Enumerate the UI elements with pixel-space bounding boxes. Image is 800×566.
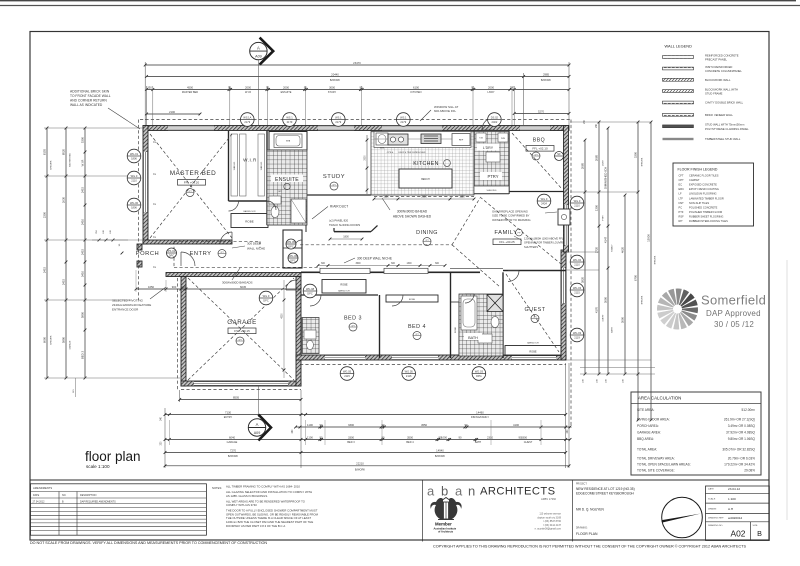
window guest bottom bbox=[512, 355, 556, 359]
svg-text:WG.02: WG.02 bbox=[573, 258, 582, 262]
svg-text:CPT: CPT bbox=[188, 191, 191, 193]
svg-text:WG.00: WG.00 bbox=[130, 201, 139, 205]
dashed roof overhang left bbox=[138, 120, 140, 301]
svg-text:2415: 2415 bbox=[81, 248, 85, 255]
svg-text:scale 1:100: scale 1:100 bbox=[86, 464, 110, 469]
svg-text:3820: 3820 bbox=[581, 276, 585, 283]
notes block bbox=[212, 485, 319, 528]
svg-text:300 DEEP WALL NICHE: 300 DEEP WALL NICHE bbox=[357, 256, 392, 260]
study 1800 dim bbox=[329, 236, 364, 241]
svg-text:5300: 5300 bbox=[81, 136, 85, 143]
svg-text:14940: 14940 bbox=[436, 448, 444, 452]
svg-text:WG.03: WG.03 bbox=[573, 286, 582, 290]
svg-text:BED 4: BED 4 bbox=[406, 441, 414, 444]
svg-text:PTRY: PTRY bbox=[487, 174, 498, 179]
svg-text:OPENING FOR TIMBER LOUVRE: OPENING FOR TIMBER LOUVRE bbox=[524, 241, 564, 245]
svg-text:TOTAL AREA:: TOTAL AREA: bbox=[637, 448, 657, 452]
svg-text:3300: 3300 bbox=[521, 435, 528, 439]
svg-text:LF: LF bbox=[679, 192, 682, 196]
svg-text:ENSUITE: ENSUITE bbox=[281, 91, 292, 94]
svg-text:AREA CALCULATION: AREA CALCULATION bbox=[638, 396, 681, 401]
wall garage right bbox=[296, 277, 301, 387]
wall ensuite bottom bbox=[267, 224, 307, 226]
svg-text:LIVING FLOOR AREA:: LIVING FLOOR AREA: bbox=[637, 418, 670, 422]
dashed roof overhang top bbox=[140, 119, 571, 121]
svg-text:NST: NST bbox=[679, 201, 685, 205]
bed4-bath wall + vertical robe bbox=[451, 272, 460, 358]
svg-text:e. aconite00@gmail.com: e. aconite00@gmail.com bbox=[535, 528, 561, 531]
svg-text:3900: 3900 bbox=[365, 155, 367, 161]
svg-text:SELECTED PIVOTING: SELECTED PIVOTING bbox=[112, 299, 144, 303]
svg-text:2000: 2000 bbox=[488, 85, 495, 89]
svg-text:B/WORK: B/WORK bbox=[51, 160, 53, 169]
svg-text:179.22m² OR 34.42%: 179.22m² OR 34.42% bbox=[724, 463, 755, 467]
svg-text:4147: 4147 bbox=[604, 236, 608, 243]
dashed entry niche box bbox=[174, 241, 320, 267]
svg-text:WG.08: WG.08 bbox=[306, 287, 315, 291]
left dim line inner bbox=[81, 127, 87, 380]
dimension row 4550 bbox=[294, 423, 571, 429]
svg-text:WALL LEGEND: WALL LEGEND bbox=[665, 44, 693, 49]
robe box below wir bbox=[231, 210, 268, 228]
svg-text:2115: 2115 bbox=[574, 290, 580, 294]
svg-text:DAP REQUIRED AMENDMENTS: DAP REQUIRED AMENDMENTS bbox=[80, 500, 116, 503]
svg-text:3300: 3300 bbox=[348, 435, 355, 439]
note 300 deep wall niche entry bbox=[232, 242, 265, 251]
svg-text:TOTAL DRIVEWAY AREA:: TOTAL DRIVEWAY AREA: bbox=[637, 457, 675, 461]
family sliding door marks right wall bbox=[563, 252, 569, 268]
svg-text:GUEST: GUEST bbox=[603, 314, 605, 322]
aban architects wordmark bbox=[427, 484, 557, 501]
svg-text:OWNER PRIOR TO FRAMING: OWNER PRIOR TO FRAMING bbox=[492, 218, 531, 222]
svg-text:B/WORK: B/WORK bbox=[228, 455, 238, 458]
svg-text:2000: 2000 bbox=[283, 85, 290, 89]
svg-text:SHELVES: SHELVES bbox=[487, 190, 497, 192]
svg-text:WG.03: WG.03 bbox=[573, 331, 582, 335]
wall master-wir divider bbox=[228, 131, 230, 201]
door wir arc bbox=[229, 201, 239, 211]
svg-text:STUD FRAME: STUD FRAME bbox=[705, 92, 723, 96]
ldry-ptry tiled floor bbox=[474, 132, 509, 194]
svg-text:4500: 4500 bbox=[187, 85, 194, 89]
note bulkhead kitchen bbox=[382, 198, 432, 219]
svg-text:NEW RESIDENCE AT LOT 1219 (NO.: NEW RESIDENCE AT LOT 1219 (NO.35) bbox=[576, 487, 635, 491]
dimension row porch 1650 bbox=[135, 285, 302, 291]
svg-text:ENSUITE: ENSUITE bbox=[275, 177, 299, 183]
dashed master bed diagonal 2 bbox=[150, 134, 232, 238]
svg-text:6700: 6700 bbox=[634, 274, 638, 281]
svg-text:ARCHITECTS: ARCHITECTS bbox=[480, 486, 555, 498]
svg-text:FLOOR PLAN: FLOOR PLAN bbox=[576, 532, 598, 536]
svg-text:WALL AS INDICATED: WALL AS INDICATED bbox=[70, 103, 103, 107]
room label BBQ bbox=[526, 138, 554, 161]
svg-text:STUD WALL WITH 75mm(50mm: STUD WALL WITH 75mm(50mm bbox=[705, 123, 745, 127]
svg-text:FLOOR FINISH LEGEND: FLOOR FINISH LEGEND bbox=[678, 168, 718, 172]
svg-text:B/WORK: B/WORK bbox=[655, 255, 657, 264]
svg-text:FFL +00.20: FFL +00.20 bbox=[184, 181, 200, 185]
note 300 deep wall niche hall bbox=[344, 256, 392, 263]
note selected pivoting door bbox=[112, 287, 166, 312]
kitchen benchtop top band bbox=[374, 132, 471, 148]
svg-text:2179: 2179 bbox=[335, 120, 341, 124]
ptry shelves strip bbox=[474, 186, 509, 194]
window tag DS.02 top5 bbox=[488, 113, 502, 127]
svg-text:DINING: DINING bbox=[416, 230, 438, 236]
amendments table bbox=[31, 484, 207, 535]
svg-text:MASTER BED: MASTER BED bbox=[182, 91, 198, 94]
svg-text:B/WORK: B/WORK bbox=[642, 295, 644, 304]
bd0 connectors bbox=[136, 270, 166, 292]
dashed overhang left of garage bbox=[177, 278, 179, 390]
svg-text:PROJECT:: PROJECT: bbox=[576, 483, 587, 485]
svg-text:GARAGE: GARAGE bbox=[227, 441, 238, 444]
guest robe strip bbox=[505, 342, 561, 356]
right dim connectors bbox=[566, 122, 651, 360]
svg-text:3000: 3000 bbox=[621, 316, 625, 323]
svg-text:2402: 2402 bbox=[492, 120, 498, 124]
svg-text:20440: 20440 bbox=[331, 72, 339, 76]
divider notes-aban bbox=[422, 480, 424, 542]
dashed ridge line hall bbox=[300, 244, 452, 246]
svg-text:4170: 4170 bbox=[595, 306, 599, 313]
svg-text:DESCRIPTION: DESCRIPTION bbox=[80, 494, 97, 497]
ensuite spa bbox=[269, 132, 307, 151]
dimension row bed widths bbox=[164, 435, 572, 444]
svg-text:B/WORK: B/WORK bbox=[435, 455, 445, 458]
kitchen oven appliance bbox=[421, 134, 441, 144]
svg-text:20.79m² OR 6.03%: 20.79m² OR 6.03% bbox=[728, 457, 755, 461]
svg-text:305.07m² OR 32.82SQ: 305.07m² OR 32.82SQ bbox=[722, 448, 755, 452]
svg-text:23.04.12: 23.04.12 bbox=[728, 487, 740, 491]
dashed overhang below garage bbox=[181, 389, 301, 391]
ldry label bbox=[477, 144, 499, 151]
wall legend item 6 bbox=[663, 113, 734, 117]
right dim line 4 bbox=[621, 194, 627, 376]
dimension row 23470 bbox=[144, 61, 571, 67]
svg-text:2110: 2110 bbox=[574, 203, 580, 207]
dimension row entry 7130 / 14460 bbox=[164, 410, 567, 419]
svg-text:90: 90 bbox=[458, 435, 462, 439]
svg-text:A.H: A.H bbox=[728, 507, 733, 511]
window tag left WG.02 bbox=[127, 171, 141, 185]
svg-text:W/M: W/M bbox=[501, 138, 505, 140]
svg-text:KITCHEN: KITCHEN bbox=[411, 91, 422, 94]
svg-text:DPC: DPC bbox=[263, 298, 269, 302]
window tag bbq WG bbox=[537, 194, 551, 208]
dimension row 22210 bbox=[164, 462, 571, 468]
svg-text:CP'B &: CP'B & bbox=[387, 152, 394, 154]
wall entry-garage top bbox=[166, 273, 301, 277]
svg-text:29.08%: 29.08% bbox=[744, 469, 755, 473]
svg-text:TOTAL SITE COVERAGE:: TOTAL SITE COVERAGE: bbox=[637, 469, 675, 473]
divider aban-project bbox=[572, 480, 574, 542]
kitchen label bbox=[413, 160, 450, 167]
svg-text:3300: 3300 bbox=[634, 151, 638, 158]
door guest arc bbox=[508, 271, 519, 282]
dashed overhang below wing bbox=[300, 364, 566, 366]
window study top bbox=[318, 126, 354, 130]
svg-text:clayton south vic 3169: clayton south vic 3169 bbox=[537, 516, 561, 519]
room label BED 3 bbox=[344, 316, 362, 332]
wall family-bbq right bbox=[564, 126, 569, 253]
right dim line 5 bbox=[634, 121, 640, 422]
left 115 label bbox=[73, 378, 76, 397]
svg-text:2179: 2179 bbox=[244, 120, 250, 124]
window tag left WG.03 bbox=[127, 198, 141, 212]
svg-text:BENCH: BENCH bbox=[421, 178, 430, 181]
dimension row garage 8500 bbox=[178, 395, 302, 401]
section marker A09 top bbox=[250, 38, 274, 125]
svg-text:GUEST: GUEST bbox=[524, 307, 545, 313]
svg-text:AND CORNER RETURN: AND CORNER RETURN bbox=[70, 99, 107, 103]
svg-text:2600: 2600 bbox=[421, 196, 427, 199]
svg-text:2340Hx1200Wx40 FEATURE: 2340Hx1200Wx40 FEATURE bbox=[112, 303, 151, 307]
kitchen tiled floor bbox=[371, 132, 474, 196]
svg-text:DATE: DATE bbox=[33, 494, 40, 497]
svg-text:EDGECOMB STREET KEYSBOROUGH: EDGECOMB STREET KEYSBOROUGH bbox=[576, 492, 635, 496]
svg-text:RUBBER SHEET FLOORING: RUBBER SHEET FLOORING bbox=[689, 214, 723, 218]
svg-text:2985: 2985 bbox=[543, 72, 550, 76]
window tag right WG.06 bbox=[570, 283, 584, 297]
svg-text:DPG: DPG bbox=[476, 374, 482, 378]
svg-text:POLISHED TIMBER FLOOR: POLISHED TIMBER FLOOR bbox=[689, 210, 722, 214]
svg-text:wd020012: wd020012 bbox=[728, 516, 743, 520]
svg-text:L'DRY: L'DRY bbox=[487, 91, 494, 94]
svg-text:ROBE: ROBE bbox=[340, 283, 348, 287]
svg-text:SINK: SINK bbox=[380, 148, 385, 150]
door bed3 arc bbox=[310, 295, 321, 306]
kitchen sink bbox=[376, 133, 388, 150]
svg-text:2085: 2085 bbox=[581, 162, 585, 169]
wall garage bottom bbox=[181, 381, 301, 386]
svg-text:LTF: LTF bbox=[679, 196, 684, 200]
svg-text:ENTRY: ENTRY bbox=[224, 416, 233, 419]
svg-text:TO FRONT FACADE WALL: TO FRONT FACADE WALL bbox=[70, 94, 111, 98]
svg-text:(x2) PANEL 820: (x2) PANEL 820 bbox=[329, 219, 349, 223]
svg-text:512.00m²: 512.00m² bbox=[742, 408, 755, 412]
svg-text:1100: 1100 bbox=[307, 423, 313, 427]
svg-text:2424: 2424 bbox=[541, 201, 547, 205]
svg-text:1650: 1650 bbox=[148, 285, 155, 289]
svg-text:2415: 2415 bbox=[43, 266, 47, 273]
svg-text:1806: 1806 bbox=[131, 156, 137, 160]
svg-text:TIMBER/STEEL STUD WALL: TIMBER/STEEL STUD WALL bbox=[705, 137, 741, 141]
svg-text:CPT: CPT bbox=[238, 339, 241, 341]
svg-text:300Wx900D B/HEADS: 300Wx900D B/HEADS bbox=[222, 281, 253, 285]
window bed4 bottom bbox=[392, 355, 438, 359]
svg-text:WG.05: WG.05 bbox=[343, 369, 352, 373]
ensuite tag circle bbox=[284, 183, 290, 189]
svg-text:Somerfield: Somerfield bbox=[701, 293, 766, 308]
bottom dim tick verticals bbox=[169, 420, 541, 445]
svg-text:MR D. Q. NGUYEN: MR D. Q. NGUYEN bbox=[576, 508, 605, 512]
svg-text:1800: 1800 bbox=[343, 236, 349, 239]
svg-text:BBQ: BBQ bbox=[533, 138, 545, 144]
svg-text:CPT: CPT bbox=[220, 252, 223, 254]
svg-text:2116: 2116 bbox=[406, 374, 412, 378]
svg-text:A: A bbox=[256, 422, 259, 427]
wall guest right bbox=[561, 250, 566, 360]
svg-text:3500: 3500 bbox=[407, 435, 414, 439]
svg-text:RUBBER INTERLOCKING TILES: RUBBER INTERLOCKING TILES bbox=[689, 219, 728, 223]
svg-text:MASTER BED: MASTER BED bbox=[69, 153, 72, 167]
svg-text:INSITU REINFORCED: INSITU REINFORCED bbox=[705, 65, 732, 69]
svg-text:90: 90 bbox=[319, 435, 323, 439]
svg-text:4620: 4620 bbox=[621, 246, 625, 253]
room label BED 4 bbox=[408, 324, 426, 340]
svg-text:TOTAL OPEN SPACE/LAWN AREAS:: TOTAL OPEN SPACE/LAWN AREAS: bbox=[637, 463, 691, 467]
svg-text:b: b bbox=[441, 484, 448, 499]
note window sill kitchen bbox=[420, 105, 459, 121]
svg-text:L'DRY: L'DRY bbox=[483, 146, 494, 150]
svg-text:ENTRY: ENTRY bbox=[189, 251, 211, 257]
svg-text:7130: 7130 bbox=[225, 410, 232, 414]
svg-text:DINING/FAMILY: DINING/FAMILY bbox=[471, 416, 489, 419]
window master bed left bbox=[143, 152, 147, 212]
door entry arc bbox=[181, 252, 195, 266]
right dim line 3 bbox=[604, 127, 610, 376]
wir shelves strips bbox=[231, 134, 265, 196]
svg-text:DO NOT SCALE FROM DRAWINGS. VE: DO NOT SCALE FROM DRAWINGS. VERIFY ALL D… bbox=[30, 541, 267, 545]
svg-text:B/WORK: B/WORK bbox=[642, 157, 644, 166]
svg-text:BRICK VENEER WALL: BRICK VENEER WALL bbox=[705, 113, 733, 117]
svg-text:of Architects: of Architects bbox=[438, 531, 454, 534]
svg-text:30 / 05 /12: 30 / 05 /12 bbox=[714, 320, 754, 329]
svg-text:COPYRIGHT APPLIES TO THIS DRAW: COPYRIGHT APPLIES TO THIS DRAWING REPROD… bbox=[433, 545, 746, 549]
svg-text:SCALE:: SCALE: bbox=[708, 498, 716, 501]
svg-text:KITCHEN: KITCHEN bbox=[413, 161, 439, 167]
svg-text:PTRY: PTRY bbox=[603, 215, 605, 221]
svg-text:DRAWING REF:: DRAWING REF: bbox=[708, 517, 724, 520]
left dim line outer bbox=[43, 127, 49, 380]
svg-text:Member: Member bbox=[435, 522, 452, 527]
hall niche dim row bbox=[317, 263, 447, 267]
door wc arc bbox=[294, 240, 302, 248]
wall legend item 4 bbox=[663, 87, 739, 95]
guest top wall bbox=[503, 270, 566, 272]
svg-text:9.80m² OR 1.06SQ: 9.80m² OR 1.06SQ bbox=[728, 437, 756, 441]
svg-text:DROP & TWR CUPB'D/OVER: DROP & TWR CUPB'D/OVER bbox=[399, 152, 426, 154]
CL marks left wall bbox=[153, 141, 157, 269]
svg-text:ALL TIMBER FRAMING TO COMPLY W: ALL TIMBER FRAMING TO COMPLY WITH AS 168… bbox=[226, 485, 300, 489]
svg-text:POLYSTYRENE CLADDING PANEL: POLYSTYRENE CLADDING PANEL bbox=[705, 127, 749, 131]
ensuite tiled floor bbox=[267, 150, 307, 225]
svg-text:DS.02: DS.02 bbox=[491, 115, 499, 119]
room label MASTER BED bbox=[170, 170, 217, 197]
svg-text:WS.1: WS.1 bbox=[400, 115, 407, 119]
door tag entry bbox=[167, 248, 177, 258]
svg-text:WS.1A: WS.1A bbox=[243, 115, 251, 119]
svg-text:NF: NF bbox=[557, 152, 561, 156]
svg-text:DIMINISHED ICH: DIMINISHED ICH bbox=[604, 167, 608, 189]
window tag bottom guest bbox=[472, 367, 486, 381]
door garage internal arc bbox=[286, 280, 296, 290]
somerfield pinwheel logo bbox=[657, 288, 698, 329]
room label STUDY bbox=[323, 174, 345, 190]
svg-text:4550: 4550 bbox=[421, 423, 428, 427]
svg-text:floor plan: floor plan bbox=[85, 449, 141, 464]
svg-text:27.04.2012: 27.04.2012 bbox=[33, 500, 46, 503]
svg-text:1:100: 1:100 bbox=[728, 497, 736, 501]
door bath arc bbox=[465, 294, 474, 303]
svg-text:3000: 3000 bbox=[604, 296, 608, 303]
svg-text:WG.0: WG.0 bbox=[574, 199, 581, 203]
svg-text:ENTRANCE DOOR: ENTRANCE DOOR bbox=[112, 308, 139, 312]
svg-text:ROBE: ROBE bbox=[245, 220, 254, 224]
svg-text:BBQ AREA:: BBQ AREA: bbox=[637, 437, 654, 441]
svg-text:DPC: DPC bbox=[290, 258, 296, 262]
svg-text:SPA: SPA bbox=[286, 140, 291, 143]
svg-text:STUDY: STUDY bbox=[328, 91, 337, 94]
svg-text:1100: 1100 bbox=[459, 196, 465, 199]
svg-text:90: 90 bbox=[464, 423, 468, 427]
svg-text:8155: 8155 bbox=[43, 148, 47, 155]
svg-text:8520: 8520 bbox=[62, 148, 66, 155]
study south wall with pocket bbox=[334, 226, 378, 232]
ensuite-hall wall stub bbox=[305, 225, 307, 232]
svg-text:600 ABOVE FFL: 600 ABOVE FFL bbox=[434, 109, 457, 113]
wall legend item 8 bbox=[663, 137, 741, 141]
window tag left WG.01 bbox=[127, 149, 141, 163]
svg-text:BATH: BATH bbox=[611, 327, 614, 333]
window garage door bbox=[194, 381, 288, 385]
svg-text:PRECAST PANEL: PRECAST PANEL bbox=[705, 58, 728, 62]
svg-text:B/WORK: B/WORK bbox=[355, 468, 365, 471]
note louvre shutters bbox=[514, 236, 564, 249]
wall ensuite-study divider bbox=[305, 131, 307, 225]
room label FAMILY bbox=[493, 230, 521, 245]
svg-text:NO.: NO. bbox=[62, 494, 67, 497]
svg-text:WG.0: WG.0 bbox=[263, 294, 270, 298]
svg-text:SHELVES: SHELVES bbox=[261, 161, 263, 170]
dashed ridge apex diagonals bbox=[452, 198, 500, 287]
small 240 ticks right of bbq bbox=[584, 119, 598, 128]
svg-text:2415: 2415 bbox=[62, 278, 66, 285]
door master bed arc bbox=[220, 232, 232, 244]
svg-text:f.(03) 0412 4137: f.(03) 0412 4137 bbox=[543, 524, 561, 527]
svg-text:BED 3: BED 3 bbox=[81, 351, 85, 360]
wall legend item 7 bbox=[663, 123, 750, 131]
svg-text:2179: 2179 bbox=[287, 120, 293, 124]
svg-text:1100: 1100 bbox=[307, 435, 313, 439]
svg-text:ROBE: ROBE bbox=[529, 350, 537, 354]
dashed bbq diagonal bbox=[512, 133, 562, 189]
svg-text:BED 4: BED 4 bbox=[408, 324, 426, 330]
right scan streak bbox=[786, 260, 788, 520]
door ldry exterior arc bbox=[482, 117, 495, 130]
wall wir-ensuite divider bbox=[266, 131, 268, 225]
svg-text:3600: 3600 bbox=[355, 263, 361, 265]
svg-text:A02: A02 bbox=[731, 529, 746, 539]
wall wir bottom bbox=[229, 200, 268, 202]
svg-text:CPT: CPT bbox=[533, 317, 536, 319]
svg-text:CAVITY DOUBLE BRICK WALL: CAVITY DOUBLE BRICK WALL bbox=[705, 101, 744, 105]
dim connector lines top bbox=[145, 62, 569, 125]
dashed family diagonal bbox=[480, 197, 561, 264]
svg-text:W.I.R: W.I.R bbox=[243, 158, 257, 163]
svg-text:A: A bbox=[257, 46, 260, 51]
svg-text:22210: 22210 bbox=[356, 462, 364, 466]
window tag bbq small bbox=[555, 152, 564, 161]
svg-text:WG.0: WG.0 bbox=[131, 174, 138, 178]
note panel sliding doors bbox=[329, 219, 360, 228]
svg-text:B/WORK: B/WORK bbox=[541, 79, 551, 82]
svg-text:ROBE: ROBE bbox=[409, 299, 416, 301]
aban address block bbox=[535, 513, 562, 531]
svg-text:FAMILY: FAMILY bbox=[611, 244, 614, 252]
window tag bottom b3 bbox=[340, 367, 354, 381]
svg-text:2119: 2119 bbox=[574, 335, 580, 339]
